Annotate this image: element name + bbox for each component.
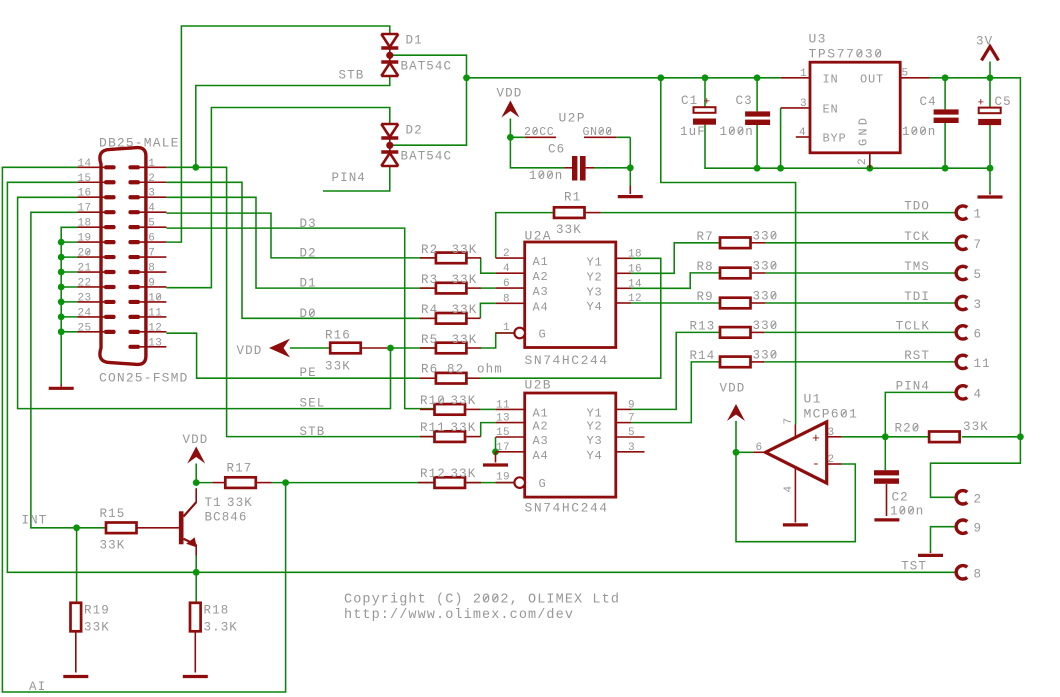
- DB25 pin 2 (pad, lead, number): [128, 180, 140, 184]
- svg-text:33K: 33K: [451, 467, 477, 481]
- svg-text:Y3: Y3: [587, 285, 603, 299]
- svg-text:C5: C5: [995, 95, 1012, 109]
- resistor R3 33K: [436, 283, 467, 294]
- svg-text:VDD: VDD: [237, 344, 263, 358]
- svg-text:2: 2: [828, 454, 835, 466]
- svg-text:A2: A2: [533, 420, 549, 434]
- svg-text:GND: GND: [857, 115, 871, 146]
- svg-text:100n: 100n: [902, 125, 936, 139]
- svg-text:4: 4: [503, 263, 510, 275]
- svg-text:R1: R1: [564, 191, 581, 205]
- svg-text:5: 5: [902, 68, 909, 80]
- svg-text:9: 9: [628, 399, 635, 411]
- wire net D1 (DB25 pin3 to R3): [166, 197, 434, 288]
- wire net PIN4 (D2 anode stub): [323, 166, 390, 191]
- svg-text:7: 7: [974, 238, 983, 252]
- U2A output pin 16 Y2: [616, 272, 631, 274]
- svg-text:3: 3: [628, 442, 635, 454]
- resistor R7 330: [720, 238, 751, 249]
- wire DB25 pin9 to D2 top: [166, 108, 389, 288]
- svg-text:3: 3: [148, 188, 155, 200]
- svg-text:33K: 33K: [556, 223, 582, 237]
- svg-text:6: 6: [503, 278, 510, 290]
- DB25 pin 21 (pad, lead, number): [104, 270, 116, 274]
- svg-text:Y3: Y3: [587, 434, 603, 448]
- wire R3 to U2A A3: [481, 287, 496, 289]
- svg-text:T1: T1: [205, 496, 222, 510]
- svg-text:2: 2: [974, 492, 983, 506]
- svg-text:D2: D2: [300, 247, 317, 261]
- svg-text:33K: 33K: [452, 333, 478, 347]
- svg-text:U1: U1: [804, 392, 822, 407]
- U2A input pin 8 A4: [496, 302, 525, 304]
- capacitor C6 plates: [572, 156, 577, 181]
- svg-text:330: 330: [753, 348, 779, 362]
- svg-text:R16: R16: [325, 329, 351, 343]
- wire R12 to U2B G pin19: [420, 482, 514, 484]
- resistor R14 330: [720, 357, 751, 368]
- svg-text:R8: R8: [697, 260, 714, 274]
- U1 pin 7 positive supply: [794, 425, 796, 438]
- svg-text:4: 4: [974, 387, 983, 401]
- svg-text:330: 330: [753, 319, 779, 333]
- svg-text:11: 11: [148, 307, 162, 319]
- IC U2A SN74HC244 box: [525, 242, 616, 348]
- DB25 pin 12 (pad, lead, number): [128, 330, 140, 334]
- svg-text:33K: 33K: [84, 621, 110, 635]
- target pin 1 net TDO: [956, 206, 967, 219]
- svg-text:G: G: [539, 328, 547, 342]
- svg-text:14: 14: [77, 158, 91, 170]
- svg-text:Y2: Y2: [587, 270, 603, 284]
- svg-text:C1: C1: [681, 94, 698, 108]
- svg-text:2: 2: [148, 173, 155, 185]
- DB25 pin 18 (pad, lead, number): [104, 225, 116, 229]
- svg-text:16: 16: [77, 188, 91, 200]
- svg-text:330: 330: [753, 229, 779, 243]
- wire R11 to U2B A2 (pin13): [481, 423, 496, 437]
- svg-text:Copyright (C) 2002, OLIMEX Ltd: Copyright (C) 2002, OLIMEX Ltd: [344, 593, 620, 608]
- target pin 2: [956, 491, 967, 504]
- svg-text:9: 9: [974, 522, 983, 536]
- U2B input pin 17 A4: [496, 451, 525, 453]
- U3 pin 4 BYP: [796, 136, 810, 138]
- target pin 7 net TCK: [956, 236, 967, 249]
- DB25 pin 9 (pad, lead, number): [128, 285, 140, 289]
- U3 pin 1 IN: [781, 77, 810, 79]
- ground symbol at U2B pins 15/17: [495, 452, 497, 463]
- wire U2B Y2 to R14, R14 to RST pin: [631, 362, 957, 423]
- svg-text:33K: 33K: [100, 539, 126, 553]
- DB25 pin 5 (pad, lead, number): [128, 225, 140, 229]
- svg-text:D3: D3: [300, 217, 317, 231]
- svg-text:C2: C2: [892, 491, 909, 505]
- svg-text:Y1: Y1: [587, 255, 603, 269]
- ground symbol for DB25 shield pins: [60, 384, 62, 386]
- svg-text:R4: R4: [421, 303, 438, 317]
- svg-text:MCP601: MCP601: [804, 407, 859, 422]
- svg-text:D1: D1: [406, 34, 423, 48]
- wire U2B Y1 to R13, R13 to TCLK pin: [631, 332, 957, 409]
- svg-text:A3: A3: [533, 285, 549, 299]
- svg-text:13: 13: [148, 337, 162, 349]
- svg-text:12: 12: [628, 293, 642, 305]
- svg-text:BAT54C: BAT54C: [401, 60, 453, 74]
- wire net R16-R5 row with junction: [290, 347, 435, 349]
- U2A enable pin 1 G with bubble: [496, 332, 514, 334]
- svg-text:4: 4: [783, 485, 795, 492]
- svg-text:http://www.olimex.com/dev: http://www.olimex.com/dev: [344, 608, 574, 623]
- node GND junctions: [754, 165, 761, 172]
- DB25 pin 4 (pad, lead, number): [128, 210, 140, 214]
- transistor T1 BC846 NPN: [179, 511, 184, 544]
- target pin 3 net TDI: [956, 296, 967, 309]
- target pin 8 net TST: [956, 566, 967, 579]
- U2A output pin 18 Y1: [616, 257, 631, 259]
- ground symbol below C5 rail: [989, 193, 991, 195]
- DB25 pin 7 (pad, lead, number): [128, 255, 140, 259]
- svg-text:15: 15: [496, 427, 510, 439]
- svg-text:BAT54C: BAT54C: [401, 150, 453, 164]
- svg-text:U2B: U2B: [525, 378, 552, 393]
- svg-text:SEL: SEL: [300, 397, 326, 411]
- wire op-amp out pin6 to VDD and feedback to pin2: [736, 421, 855, 542]
- DB25 pin 16 (pad, lead, number): [104, 195, 116, 199]
- resistor R11 33K: [435, 431, 466, 442]
- svg-text:VDD: VDD: [497, 87, 523, 101]
- svg-text:5: 5: [148, 218, 155, 230]
- svg-text:A1: A1: [533, 255, 549, 269]
- svg-text:TPS77030: TPS77030: [809, 47, 884, 62]
- svg-text:+: +: [978, 98, 985, 110]
- DB25 pin 17 (pad, lead, number): [104, 210, 116, 214]
- target pin 6 net TCLK: [956, 326, 967, 339]
- svg-text:EN: EN: [823, 103, 839, 117]
- ground symbol below R19: [63, 675, 88, 678]
- svg-text:3: 3: [974, 298, 983, 312]
- svg-text:33K: 33K: [963, 420, 989, 434]
- svg-text:VDD: VDD: [183, 433, 209, 447]
- wire net SEL (DB25 pin16 to R16/R5 node): [18, 197, 391, 408]
- resistor R13 330: [720, 327, 751, 338]
- svg-text:TDO: TDO: [904, 200, 930, 214]
- svg-text:+: +: [812, 431, 820, 446]
- capacitor C4 100n: [934, 109, 959, 114]
- svg-text:3: 3: [800, 98, 807, 110]
- resistor R19 33K vertical: [71, 603, 82, 632]
- svg-text:100n: 100n: [529, 169, 563, 183]
- capacitor C1 polarized 1uF: [694, 107, 716, 113]
- wire DB25 pin6 to D1 top: [166, 26, 389, 242]
- resistor R5 33K: [436, 343, 467, 354]
- IC U2B SN74HC244 box: [525, 393, 616, 497]
- node GND bus junction dots pins19-25: [58, 239, 65, 246]
- svg-text:C4: C4: [920, 95, 937, 109]
- svg-text:33K: 33K: [451, 394, 477, 408]
- svg-text:19: 19: [77, 233, 91, 245]
- diode D2 BAT54C dual: [381, 123, 398, 126]
- resistor R17 33K: [225, 477, 256, 488]
- svg-text:20CC: 20CC: [524, 126, 554, 139]
- resistor R12 33K: [435, 477, 466, 488]
- wire net GND (C1/C3 bottoms, EN, U3 GND, C4/C5 bottoms, C6 right): [594, 108, 990, 193]
- resistor R16 33K: [330, 343, 361, 354]
- wire TDO row (R1 to target pin1, and R1 to U2A A1): [481, 213, 957, 259]
- svg-text:1: 1: [800, 68, 807, 80]
- wire R2 to U2A A2: [481, 258, 496, 273]
- U2A output pin 12 Y4: [616, 302, 631, 304]
- svg-text:R19: R19: [84, 604, 110, 618]
- U2B input pin 11 A1: [496, 408, 525, 410]
- DB25 pin 19 (pad, lead, number): [104, 240, 116, 244]
- wire DB25 ground pins 18-25 bus: [61, 227, 77, 384]
- wire net D0 (DB25 pin2 to R4): [166, 182, 434, 318]
- U2B enable pin 19 G with bubble: [496, 482, 514, 484]
- svg-text:BYP: BYP: [823, 132, 847, 146]
- svg-text:82: 82: [447, 363, 464, 377]
- wire net TST (DB25 pin15, T1 emitter, R18, target pin8): [7, 182, 956, 603]
- svg-text:D0: D0: [300, 307, 317, 321]
- svg-text:U3: U3: [809, 32, 827, 47]
- DB25 pin 20 (pad, lead, number): [104, 255, 116, 259]
- svg-text:R6: R6: [421, 363, 438, 377]
- U2B output pin 9 Y1: [616, 408, 631, 410]
- svg-text:7: 7: [783, 417, 795, 424]
- svg-text:18: 18: [628, 248, 642, 260]
- U2A output pin 14 Y3: [616, 287, 631, 289]
- svg-text:D1: D1: [300, 277, 317, 291]
- svg-text:D2: D2: [406, 124, 423, 138]
- capacitor C5 polarized: [979, 108, 1001, 114]
- wire R5 to U2A G pin1: [481, 333, 514, 348]
- svg-text:PIN4: PIN4: [896, 379, 930, 393]
- svg-text:17: 17: [496, 442, 510, 454]
- svg-text:TCLK: TCLK: [896, 319, 930, 333]
- resistor R9 330: [720, 298, 751, 309]
- U2B input pin 13 A2: [496, 422, 525, 424]
- wire net AI (DB25 pin14, bottom loop, R17/R12 node): [2, 167, 420, 692]
- DB25 pin 8 (pad, lead, number): [128, 270, 140, 274]
- U2P VCC pin stub and label 20CC: [525, 136, 556, 138]
- svg-text:2: 2: [857, 158, 869, 165]
- svg-text:8: 8: [974, 567, 983, 581]
- svg-text:RST: RST: [904, 349, 930, 363]
- svg-text:18: 18: [77, 218, 91, 230]
- svg-text:A2: A2: [533, 270, 549, 284]
- svg-text:15: 15: [77, 173, 91, 185]
- svg-text:R12: R12: [420, 467, 446, 481]
- svg-text:1: 1: [974, 208, 983, 222]
- svg-text:STB: STB: [300, 425, 326, 439]
- wire net PIN4 at op-amp (pin3, R20, C2, target pin4): [842, 392, 957, 470]
- svg-text:TMS: TMS: [904, 260, 930, 274]
- wire U3 EN stub drop: [780, 107, 782, 109]
- DB25 pin 3 (pad, lead, number): [128, 195, 140, 199]
- svg-text:33K: 33K: [452, 303, 478, 317]
- DB25 pin 11 (pad, lead, number): [128, 315, 140, 319]
- svg-text:11: 11: [496, 399, 510, 411]
- svg-text:Y4: Y4: [587, 449, 603, 463]
- wire target pin9 to GND: [931, 527, 957, 552]
- svg-text:23: 23: [77, 292, 91, 304]
- svg-text:Y4: Y4: [587, 300, 603, 314]
- U2P GND pin stub and label GN00: [584, 136, 616, 138]
- wire net INT (DB25 pin17, R15, R19): [31, 212, 106, 603]
- svg-text:33K: 33K: [452, 273, 478, 287]
- ground symbol at target pin 9: [930, 552, 932, 554]
- svg-text:33K: 33K: [452, 243, 478, 257]
- svg-text:1uF: 1uF: [680, 125, 706, 139]
- svg-text:10: 10: [148, 292, 162, 304]
- U3 GND pin 2 vertical: [869, 153, 871, 168]
- svg-text:Y2: Y2: [587, 420, 603, 434]
- ground symbol below C6: [629, 186, 631, 195]
- svg-text:R18: R18: [204, 604, 230, 618]
- target pin 5 net TMS: [956, 266, 967, 279]
- svg-text:BC846: BC846: [205, 511, 248, 525]
- U2B output pin 7 Y2: [616, 422, 631, 424]
- resistor R18 3.3K vertical: [190, 603, 201, 632]
- resistor R2 33K: [436, 253, 467, 264]
- ground symbol below R18: [183, 675, 208, 678]
- wire T1 collector to R17 node: [196, 482, 212, 484]
- svg-text:25: 25: [77, 322, 91, 334]
- svg-text:TST: TST: [901, 559, 927, 573]
- svg-text:7: 7: [628, 413, 635, 425]
- resistor R1 33K: [554, 207, 585, 218]
- U1 pin 6 output: [753, 451, 765, 453]
- wire U2A Y3 to R8, R8 to TMS pin: [631, 273, 957, 288]
- resistor R20 33K: [929, 432, 960, 443]
- U3 pin 5 OUT: [900, 77, 929, 79]
- U2A input pin 6 A3: [496, 287, 525, 289]
- svg-text:C3: C3: [736, 94, 753, 108]
- svg-text:R13: R13: [690, 319, 716, 333]
- svg-text:17: 17: [77, 203, 91, 215]
- svg-text:6: 6: [756, 442, 763, 454]
- svg-text:A4: A4: [533, 300, 549, 314]
- svg-text:R10: R10: [420, 394, 446, 408]
- svg-text:8: 8: [148, 263, 155, 275]
- target pin 9: [956, 520, 967, 533]
- wire R10 to U2B A1: [480, 408, 496, 410]
- svg-text:TDI: TDI: [904, 290, 930, 304]
- resistor R4 33K: [436, 313, 467, 324]
- svg-text:PIN4: PIN4: [332, 171, 366, 185]
- svg-text:12: 12: [148, 322, 162, 334]
- svg-text:6: 6: [148, 233, 155, 245]
- svg-text:24: 24: [77, 307, 91, 319]
- U2A input pin 2 A1: [496, 257, 525, 259]
- wire net 3V (U3 OUT, C4, C5, right-edge drop to R20 and target pin2): [930, 62, 1021, 498]
- svg-text:5: 5: [628, 427, 635, 439]
- capacitor C3 100n: [745, 111, 770, 116]
- svg-text:R20: R20: [895, 422, 921, 436]
- node 3V junctions: [942, 74, 949, 81]
- wire net D2 (DB25 pin4 to R2): [166, 213, 434, 258]
- svg-text:R11: R11: [420, 421, 446, 435]
- node STB junction at pin1: [192, 164, 199, 171]
- svg-text:13: 13: [496, 413, 510, 425]
- resistor R6 82 ohm: [436, 373, 467, 384]
- svg-text:A4: A4: [533, 449, 549, 463]
- target pin 4 net PIN4: [956, 386, 967, 399]
- svg-text:7: 7: [148, 248, 155, 260]
- svg-text:8: 8: [503, 293, 510, 305]
- DB25 pin 1 (pad, lead, number): [128, 165, 140, 169]
- ground symbol below C2: [874, 518, 899, 521]
- svg-text:DB25-MALE: DB25-MALE: [99, 136, 180, 151]
- node VDD junctions: [463, 74, 470, 81]
- svg-text:SN74HC244: SN74HC244: [525, 501, 609, 516]
- wire R4 to U2A A4: [480, 303, 495, 318]
- svg-text:PE: PE: [300, 366, 317, 380]
- svg-text:R2: R2: [421, 243, 438, 257]
- svg-text:4: 4: [148, 203, 155, 215]
- svg-text:33K: 33K: [227, 496, 253, 510]
- svg-text:11: 11: [974, 357, 991, 371]
- svg-text:R14: R14: [690, 349, 716, 363]
- wire U2A Y2 to R7, R7 to TCK pin: [631, 243, 957, 273]
- svg-text:16: 16: [628, 263, 642, 275]
- DB25 pin 13 (pad, lead, number): [128, 345, 140, 349]
- DB25 pin 22 (pad, lead, number): [104, 285, 116, 289]
- svg-text:20: 20: [77, 248, 91, 260]
- svg-text:R5: R5: [421, 333, 438, 347]
- svg-text:+: +: [704, 97, 711, 109]
- svg-text:AI: AI: [29, 680, 46, 694]
- U2B output pin 5 Y3: [616, 436, 645, 438]
- U1 pin 2 inverting input: [827, 463, 842, 465]
- wire net D3 (DB25 pin5 to R10): [166, 228, 434, 409]
- svg-text:R9: R9: [697, 290, 714, 304]
- U1 pin 4 negative supply to ground: [794, 468, 796, 523]
- svg-text:U2P: U2P: [559, 111, 586, 126]
- DB25 pin 24 (pad, lead, number): [104, 315, 116, 319]
- svg-text:33K: 33K: [325, 360, 351, 374]
- wire net PE (DB25 pin12, R6, U2A Y1): [166, 258, 660, 378]
- svg-text:G: G: [539, 477, 547, 491]
- U2A input pin 4 A2: [496, 272, 525, 274]
- svg-text:5: 5: [974, 268, 983, 282]
- svg-text:INT: INT: [22, 514, 48, 528]
- svg-text:19: 19: [496, 472, 510, 484]
- DB25 pin 23 (pad, lead, number): [104, 300, 116, 304]
- wire net VDD-IN rail (D1/D2 common, C1, C3, U3 IN, U2P VCC, C6): [390, 55, 796, 424]
- svg-text:IN: IN: [823, 73, 839, 87]
- svg-text:R15: R15: [100, 507, 126, 521]
- svg-text:U2A: U2A: [525, 229, 552, 244]
- wire net STB (DB25 pin1 to D1 and R11/U2B-13): [166, 77, 434, 437]
- svg-text:4: 4: [799, 127, 806, 139]
- U2B input pin 15 A3: [496, 436, 525, 438]
- svg-text:3: 3: [828, 427, 835, 439]
- U2B output pin 3 Y4: [616, 451, 645, 453]
- target pin 11 net RST: [956, 355, 967, 368]
- U3 pin 3 EN: [781, 107, 810, 109]
- svg-text:33K: 33K: [451, 421, 477, 435]
- svg-text:Y1: Y1: [587, 406, 603, 420]
- DB25 pin 14 (pad, lead, number): [104, 165, 116, 169]
- IC U3 regulator box: [810, 62, 900, 153]
- svg-text:100n: 100n: [720, 125, 754, 139]
- svg-text:1: 1: [148, 158, 155, 170]
- svg-text:STB: STB: [339, 69, 365, 83]
- svg-text:CON25-FSMD: CON25-FSMD: [99, 371, 189, 386]
- svg-text:100n: 100n: [890, 505, 924, 519]
- diode D1 BAT54C dual: [381, 33, 398, 36]
- resistor R8 330: [720, 268, 751, 279]
